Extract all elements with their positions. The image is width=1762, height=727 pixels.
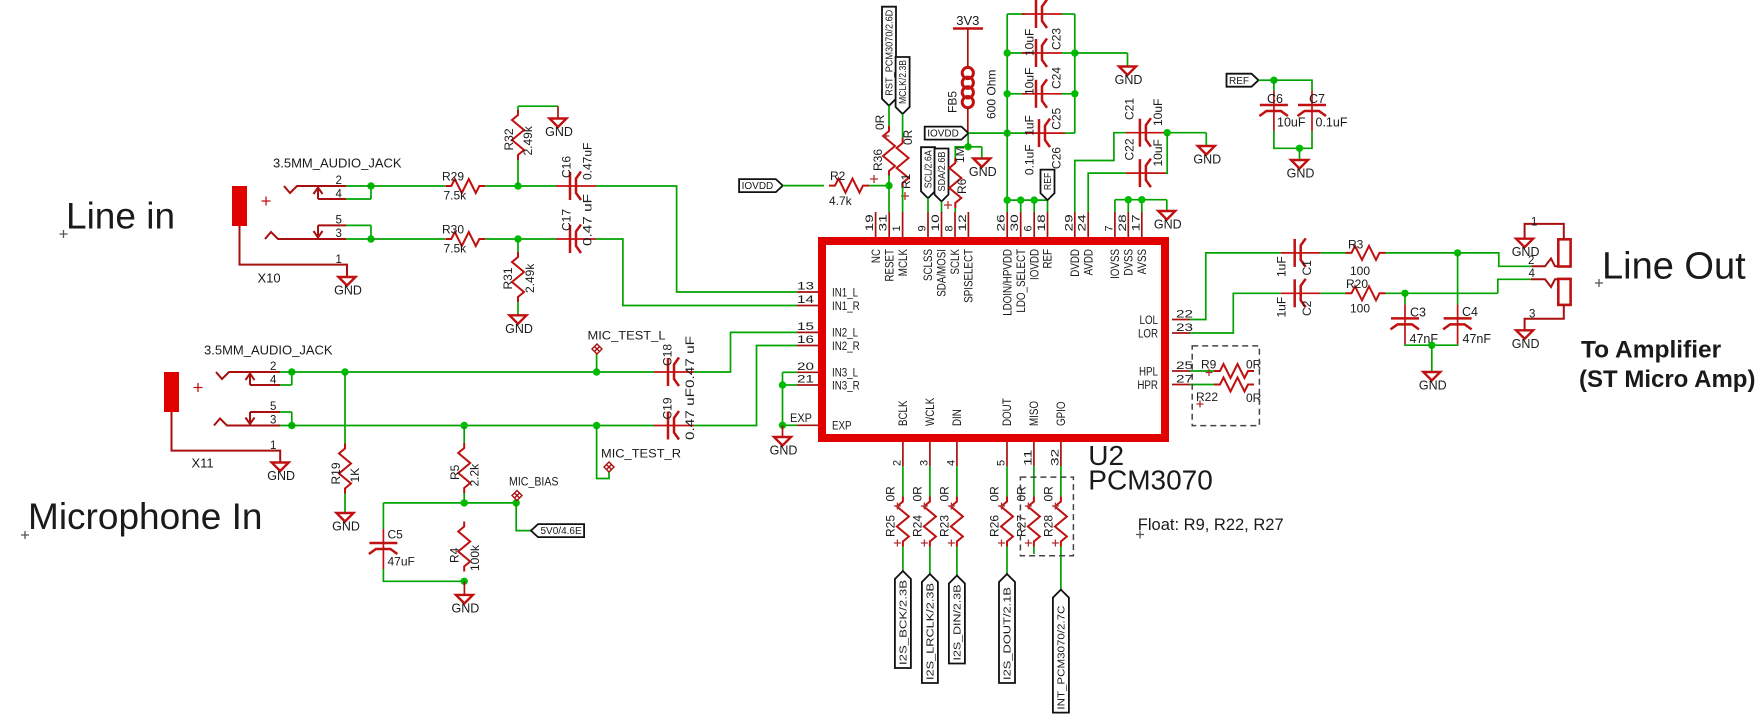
svg-text:R19: R19 <box>329 462 343 484</box>
svg-text:10: 10 <box>930 214 942 231</box>
svg-text:GND: GND <box>452 601 480 615</box>
svg-text:REF: REF <box>1043 173 1054 191</box>
svg-text:9: 9 <box>917 225 929 231</box>
svg-text:0R: 0R <box>1014 486 1028 502</box>
svg-text:100k: 100k <box>468 544 482 571</box>
svg-text:NC: NC <box>871 249 883 263</box>
svg-text:GND: GND <box>505 322 533 336</box>
svg-text:0.1uF: 0.1uF <box>1023 144 1037 175</box>
svg-text:20: 20 <box>797 361 814 373</box>
svg-text:HPL: HPL <box>1139 366 1159 378</box>
svg-text:X11: X11 <box>192 456 214 471</box>
svg-text:HPR: HPR <box>1137 380 1158 392</box>
svg-text:REF: REF <box>1229 76 1249 87</box>
svg-text:5: 5 <box>996 460 1008 466</box>
svg-text:GND: GND <box>1154 218 1182 232</box>
svg-text:26: 26 <box>996 214 1008 231</box>
svg-text:IOVDD: IOVDD <box>742 181 774 192</box>
svg-text:R26: R26 <box>988 515 1002 537</box>
svg-text:MCLK/2.3B: MCLK/2.3B <box>898 60 909 104</box>
svg-text:100: 100 <box>1350 302 1370 316</box>
svg-text:C7: C7 <box>1309 92 1325 106</box>
svg-text:R20: R20 <box>1346 277 1368 291</box>
svg-text:IN2_R: IN2_R <box>832 341 860 353</box>
svg-text:EXP: EXP <box>832 421 852 433</box>
svg-text:16: 16 <box>797 334 814 346</box>
svg-text:28: 28 <box>1117 214 1129 231</box>
svg-text:R27: R27 <box>1014 515 1028 537</box>
svg-text:GND: GND <box>332 520 360 534</box>
svg-text:IOVSS: IOVSS <box>1110 249 1122 279</box>
svg-text:0.47 uF: 0.47 uF <box>683 336 697 388</box>
svg-text:4: 4 <box>1529 268 1536 280</box>
svg-text:5: 5 <box>270 401 276 413</box>
svg-text:47nF: 47nF <box>1463 332 1492 346</box>
svg-text:SPISELECT: SPISELECT <box>964 249 976 303</box>
svg-text:SDA/2.6B: SDA/2.6B <box>937 151 948 191</box>
svg-text:1uF: 1uF <box>1023 115 1037 136</box>
svg-text:1K: 1K <box>348 468 362 483</box>
svg-text:LDOIN/HPVDD: LDOIN/HPVDD <box>1002 249 1014 316</box>
svg-text:DOUT: DOUT <box>1002 398 1014 426</box>
svg-text:GND: GND <box>969 165 997 179</box>
svg-text:LOR: LOR <box>1138 328 1158 340</box>
svg-text:4: 4 <box>270 375 277 387</box>
svg-text:15: 15 <box>797 321 814 333</box>
svg-text:GND: GND <box>770 444 798 458</box>
svg-text:C4: C4 <box>1462 305 1478 319</box>
svg-text:C23: C23 <box>1050 28 1064 50</box>
svg-text:3: 3 <box>918 460 930 466</box>
svg-text:GND: GND <box>334 284 362 298</box>
svg-text:R32: R32 <box>502 128 516 150</box>
svg-text:GND: GND <box>1193 153 1221 167</box>
svg-text:IN3_R: IN3_R <box>832 380 860 392</box>
svg-text:1: 1 <box>891 225 903 231</box>
svg-text:0.47 uF: 0.47 uF <box>683 388 697 440</box>
svg-text:R4: R4 <box>448 547 462 563</box>
svg-text:PCM3070: PCM3070 <box>1088 464 1213 495</box>
svg-text:REF: REF <box>1043 249 1055 269</box>
svg-text:0R: 0R <box>937 486 951 502</box>
svg-text:3.5MM_AUDIO_JACK: 3.5MM_AUDIO_JACK <box>204 343 333 358</box>
svg-text:GPIO: GPIO <box>1056 401 1068 426</box>
svg-text:C17: C17 <box>559 209 573 231</box>
svg-text:2.49k: 2.49k <box>521 125 535 155</box>
svg-text:7.5k: 7.5k <box>444 189 468 203</box>
svg-text:MIC_BIAS: MIC_BIAS <box>509 475 559 489</box>
svg-text:Line Out: Line Out <box>1602 246 1746 288</box>
svg-text:C5: C5 <box>388 528 404 542</box>
svg-text:I2S_BCK/2.3B: I2S_BCK/2.3B <box>899 580 910 665</box>
svg-text:7: 7 <box>1103 225 1115 231</box>
svg-text:SCLSS: SCLSS <box>923 249 935 281</box>
svg-text:I2S_DIN/2.3B: I2S_DIN/2.3B <box>953 584 964 660</box>
svg-text:3: 3 <box>270 415 276 427</box>
svg-text:47uF: 47uF <box>388 555 415 569</box>
svg-text:1uF: 1uF <box>1275 297 1289 318</box>
svg-text:4: 4 <box>945 460 957 466</box>
svg-text:32: 32 <box>1049 449 1061 466</box>
svg-text:12: 12 <box>957 214 969 231</box>
svg-text:IN1_L: IN1_L <box>832 287 859 299</box>
svg-text:5V0/4.6E: 5V0/4.6E <box>541 526 582 537</box>
svg-text:24: 24 <box>1077 214 1089 231</box>
svg-text:29: 29 <box>1063 214 1075 231</box>
svg-text:10uF: 10uF <box>1151 99 1165 126</box>
svg-text:21: 21 <box>797 374 814 386</box>
svg-text:GND: GND <box>1512 337 1540 351</box>
svg-text:2.49k: 2.49k <box>523 263 537 293</box>
svg-text:R6: R6 <box>955 178 969 194</box>
svg-text:AVDD: AVDD <box>1083 249 1095 275</box>
svg-text:(ST Micro Amp): (ST Micro Amp) <box>1579 366 1755 393</box>
svg-text:MIC_TEST_R: MIC_TEST_R <box>601 447 681 461</box>
svg-text:DVDD: DVDD <box>1070 249 1082 277</box>
svg-text:19: 19 <box>864 214 876 231</box>
svg-text:0R: 0R <box>1041 486 1055 502</box>
svg-text:R23: R23 <box>937 515 951 537</box>
svg-text:1: 1 <box>336 254 342 266</box>
svg-text:C25: C25 <box>1050 107 1064 129</box>
svg-text:R30: R30 <box>442 223 464 237</box>
svg-text:30: 30 <box>1009 214 1021 231</box>
svg-text:C6: C6 <box>1267 92 1283 106</box>
svg-text:R28: R28 <box>1041 515 1055 537</box>
svg-text:C18: C18 <box>661 344 675 366</box>
svg-text:3.5MM_AUDIO_JACK: 3.5MM_AUDIO_JACK <box>273 156 402 171</box>
svg-text:0R: 0R <box>883 486 897 502</box>
svg-text:7.5k: 7.5k <box>444 242 468 256</box>
svg-text:0R: 0R <box>988 486 1002 502</box>
svg-text:Float: R9, R22, R27: Float: R9, R22, R27 <box>1138 516 1284 534</box>
svg-text:31: 31 <box>878 214 890 231</box>
svg-text:5: 5 <box>336 215 342 227</box>
svg-text:LOL: LOL <box>1140 315 1159 327</box>
svg-text:3: 3 <box>1529 309 1535 321</box>
svg-text:C21: C21 <box>1123 98 1137 120</box>
svg-text:4: 4 <box>336 189 343 201</box>
svg-text:SCL/2.6A: SCL/2.6A <box>924 150 935 188</box>
svg-text:R5: R5 <box>448 464 462 480</box>
svg-text:11: 11 <box>1022 450 1034 466</box>
svg-text:MIC_TEST_L: MIC_TEST_L <box>588 329 666 343</box>
svg-text:C3: C3 <box>1410 306 1426 320</box>
svg-text:GND: GND <box>1512 245 1540 259</box>
svg-text:100: 100 <box>1350 264 1370 278</box>
svg-text:WCLK: WCLK <box>925 398 937 426</box>
svg-text:FB5: FB5 <box>946 91 960 113</box>
svg-text:1: 1 <box>270 440 276 452</box>
svg-text:I2S_DOUT/2.1B: I2S_DOUT/2.1B <box>1003 587 1014 680</box>
svg-text:2: 2 <box>1528 255 1534 267</box>
svg-text:RST_PCM3070/2.6D: RST_PCM3070/2.6D <box>885 10 896 96</box>
svg-text:1uF: 1uF <box>1275 256 1289 277</box>
svg-text:IOVDD: IOVDD <box>927 129 959 140</box>
svg-text:C26: C26 <box>1050 147 1064 169</box>
svg-text:2: 2 <box>270 361 276 373</box>
svg-text:17: 17 <box>1130 214 1142 231</box>
svg-text:INT_PCM3070/2.7C: INT_PCM3070/2.7C <box>1057 606 1068 710</box>
svg-text:C19: C19 <box>661 397 675 419</box>
svg-text:SDA/MOSI: SDA/MOSI <box>937 249 949 297</box>
svg-text:R36: R36 <box>871 149 885 171</box>
svg-text:IOVDD: IOVDD <box>1029 249 1041 280</box>
svg-text:GND: GND <box>1287 167 1315 181</box>
svg-text:To Amplifier: To Amplifier <box>1581 337 1722 364</box>
svg-text:R2: R2 <box>830 169 846 183</box>
svg-text:GND: GND <box>267 469 295 483</box>
svg-text:X10: X10 <box>258 271 281 286</box>
svg-text:R1: R1 <box>899 173 913 189</box>
svg-text:0R: 0R <box>901 129 915 145</box>
svg-text:I2S_LRCLK/2.3B: I2S_LRCLK/2.3B <box>926 583 937 680</box>
svg-text:EXP: EXP <box>790 413 812 425</box>
svg-text:RESET: RESET <box>884 249 896 282</box>
svg-text:2: 2 <box>891 460 903 466</box>
svg-text:10uF: 10uF <box>1023 68 1037 95</box>
svg-text:0.47 uF: 0.47 uF <box>581 194 595 246</box>
svg-text:R3: R3 <box>1348 238 1364 252</box>
svg-text:BCLK: BCLK <box>898 400 910 426</box>
svg-text:3: 3 <box>336 228 342 240</box>
svg-text:MISO: MISO <box>1029 401 1041 426</box>
svg-text:6: 6 <box>1023 225 1035 231</box>
svg-text:8: 8 <box>944 225 956 231</box>
svg-text:IN1_R: IN1_R <box>832 301 860 313</box>
svg-text:2: 2 <box>336 175 342 187</box>
svg-text:4.7k: 4.7k <box>829 194 853 208</box>
svg-text:R24: R24 <box>910 515 924 537</box>
svg-text:MCLK: MCLK <box>898 249 910 276</box>
svg-text:0.47uF: 0.47uF <box>581 143 595 180</box>
svg-text:0R: 0R <box>873 114 887 130</box>
svg-text:Line in: Line in <box>66 196 175 237</box>
svg-text:3V3: 3V3 <box>956 13 979 28</box>
svg-text:14: 14 <box>797 294 814 306</box>
svg-text:C1: C1 <box>1300 260 1314 276</box>
svg-text:10uF: 10uF <box>1151 139 1165 166</box>
svg-text:2.2k: 2.2k <box>468 463 482 487</box>
svg-text:SCLK: SCLK <box>950 249 962 275</box>
svg-text:DIN: DIN <box>952 409 964 426</box>
svg-text:C22: C22 <box>1123 138 1137 160</box>
svg-text:600 Ohm: 600 Ohm <box>985 70 999 119</box>
svg-text:0R: 0R <box>910 486 924 502</box>
svg-text:LDO_SELECT: LDO_SELECT <box>1016 249 1028 313</box>
svg-text:0.1uF: 0.1uF <box>1316 116 1348 130</box>
svg-text:10uF: 10uF <box>1277 116 1306 130</box>
svg-text:R31: R31 <box>501 267 515 289</box>
svg-text:IN3_L: IN3_L <box>832 368 859 380</box>
svg-text:IN2_L: IN2_L <box>832 328 859 340</box>
svg-text:Microphone In: Microphone In <box>28 496 262 537</box>
svg-text:10uF: 10uF <box>1023 29 1037 56</box>
svg-text:13: 13 <box>797 281 814 293</box>
svg-text:C24: C24 <box>1050 67 1064 89</box>
svg-text:GND: GND <box>545 125 573 139</box>
svg-text:18: 18 <box>1036 214 1048 231</box>
svg-text:AVSS: AVSS <box>1137 249 1149 275</box>
svg-text:1: 1 <box>1531 217 1537 229</box>
svg-text:C2: C2 <box>1300 300 1314 316</box>
svg-text:C16: C16 <box>559 156 573 178</box>
svg-text:GND: GND <box>1115 73 1143 87</box>
svg-text:R25: R25 <box>883 515 897 537</box>
svg-text:DVSS: DVSS <box>1124 249 1136 276</box>
svg-text:R29: R29 <box>442 170 464 184</box>
svg-text:GND: GND <box>1419 379 1447 393</box>
